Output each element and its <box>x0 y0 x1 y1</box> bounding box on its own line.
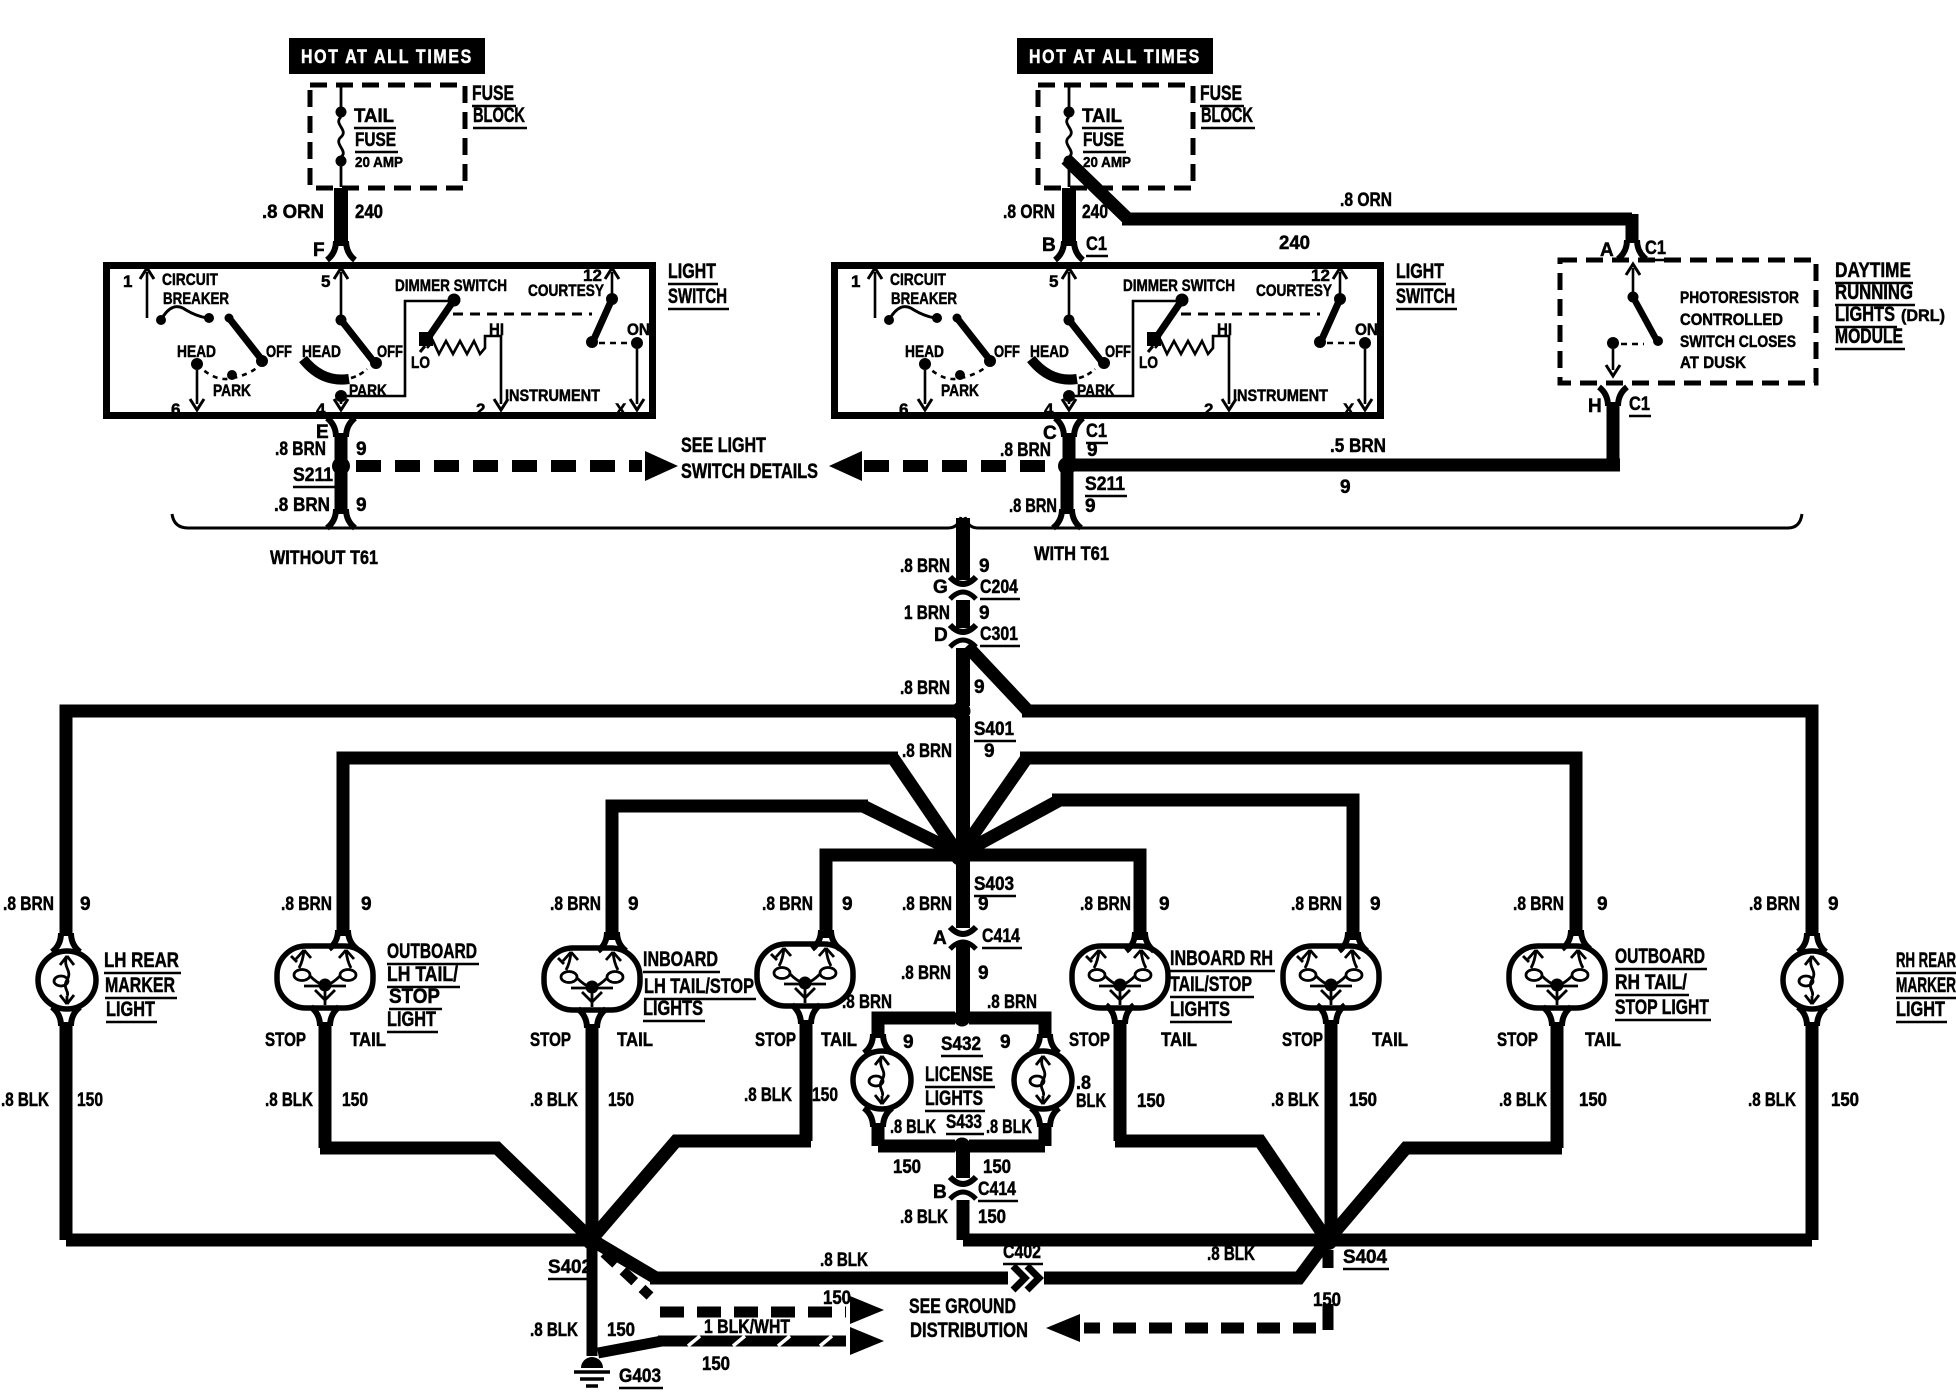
splice S211 (1) label <box>293 465 335 487</box>
outboard RH light label <box>1615 945 1711 1020</box>
brace joining branches <box>172 514 1802 528</box>
svg-text:STOP: STOP <box>265 1030 306 1051</box>
svg-text:FUSE: FUSE <box>472 82 514 105</box>
wire label 150 150 (below license) <box>893 1157 1011 1178</box>
svg-text:STOP: STOP <box>389 985 440 1008</box>
DRL module label <box>1835 259 1945 349</box>
inboard LH lights label <box>643 948 756 1021</box>
splice S402 <box>582 1230 602 1250</box>
splice S401 <box>952 702 971 721</box>
svg-text:.8 BRN: .8 BRN <box>550 894 601 915</box>
svg-text:9: 9 <box>1370 894 1381 915</box>
svg-text:LH REAR: LH REAR <box>104 949 179 972</box>
stop tail label (inboard RH 1) <box>1069 1030 1197 1051</box>
svg-text:LIGHTS: LIGHTS <box>643 997 703 1020</box>
svg-text:STOP: STOP <box>530 1030 571 1051</box>
svg-text:G403: G403 <box>619 1366 661 1387</box>
wire label .8 BLK 150 (outboard RH) <box>1499 1090 1607 1111</box>
connector flare inboard LH bulb1 bottom <box>578 1009 606 1028</box>
license light bulb 2 <box>1014 1051 1072 1109</box>
svg-text:9: 9 <box>1000 1032 1011 1053</box>
wire S401 right feed to RH rear marker <box>967 646 1812 936</box>
svg-text:DISTRIBUTION: DISTRIBUTION <box>910 1319 1028 1342</box>
svg-text:9: 9 <box>356 439 367 460</box>
connector C C1 label <box>1043 421 1108 444</box>
light switch 2 <box>835 266 1381 420</box>
svg-text:C414: C414 <box>982 926 1020 947</box>
DRL internal caption <box>1680 288 1799 372</box>
svg-text:.8 BRN: .8 BRN <box>1080 894 1131 915</box>
svg-text:TAIL: TAIL <box>1161 1030 1197 1051</box>
svg-text:9: 9 <box>903 1032 914 1053</box>
tail fuse 2 value label <box>1082 106 1131 171</box>
connector flare license bulb2 top <box>1031 1034 1059 1053</box>
wire C to S211-2 .8 BRN 9 <box>1063 433 1076 462</box>
splice S401 label <box>974 719 1016 741</box>
svg-text:150: 150 <box>1137 1091 1165 1112</box>
dashed wire S211-1 to see-light-switch-details <box>356 460 642 472</box>
svg-text:TAIL: TAIL <box>1372 1030 1408 1051</box>
svg-text:.8 BRN: .8 BRN <box>1513 894 1564 915</box>
svg-text:.8 BRN: .8 BRN <box>1009 496 1057 517</box>
wire label 1 BRN 9 <box>904 603 990 624</box>
svg-text:150: 150 <box>1579 1090 1607 1111</box>
hot-at-all-times banner 1 <box>289 38 485 74</box>
wire inboard RH bulb1 to S404 .8 BLK 150 <box>1115 1020 1323 1234</box>
wire label .8 BRN 9 (above S211-1) <box>275 439 367 460</box>
splice S211 (1) <box>332 457 350 475</box>
svg-text:.8 BLK: .8 BLK <box>1 1090 49 1111</box>
svg-text:.8 BLK: .8 BLK <box>890 1117 936 1138</box>
wire S401 left feed to LH rear marker <box>66 711 961 936</box>
wire label .8 BRN 9 (above S401) <box>900 677 985 699</box>
dashed wire S404 to ground distribution <box>1084 1250 1328 1330</box>
svg-text:OUTBOARD: OUTBOARD <box>1615 945 1705 968</box>
wire C402 to S404 .8 BLK <box>1044 1243 1325 1278</box>
connector H C1 flare <box>1599 387 1627 406</box>
svg-text:.8 BLK: .8 BLK <box>1207 1244 1255 1265</box>
wire end hook at bracket (with T61) <box>1053 509 1081 528</box>
svg-text:C1: C1 <box>1086 421 1107 442</box>
wire license bulb2 to S433 <box>969 1123 1045 1146</box>
splice S403 label <box>974 874 1016 896</box>
svg-text:H: H <box>1588 396 1602 417</box>
connector flare RH marker bottom <box>1798 1007 1826 1026</box>
svg-text:.8 BLK: .8 BLK <box>986 1117 1032 1138</box>
stop tail label (outboard RH) <box>1497 1030 1621 1051</box>
stop tail label (outboard LH) <box>265 1030 386 1051</box>
svg-text:PHOTORESISTOR: PHOTORESISTOR <box>1680 288 1799 307</box>
connector flare LH marker bottom <box>52 1007 80 1026</box>
connector flare RH marker top <box>1798 933 1826 952</box>
svg-text:150: 150 <box>702 1354 730 1375</box>
outboard LH light label <box>387 940 479 1032</box>
wire label .8 BRN 9 (inboard LH bulb 2) <box>762 894 853 915</box>
inboard RH tail/stop bulb 2 <box>1283 946 1379 1008</box>
wire fuse1 to switch F <box>334 188 348 246</box>
svg-text:.8 BRN: .8 BRN <box>274 495 330 516</box>
svg-text:WITH T61: WITH T61 <box>1034 544 1109 565</box>
wire label .8 BLK 150 (inboard RH 1 stacked) <box>1076 1073 1165 1112</box>
stop tail label (inboard LH 1) <box>530 1030 653 1051</box>
svg-text:TAIL: TAIL <box>821 1030 857 1051</box>
svg-text:.8 BRN: .8 BRN <box>1291 894 1342 915</box>
wire C301 to S401 .8 BRN 9 <box>956 648 970 706</box>
svg-text:MARKER: MARKER <box>1896 974 1956 997</box>
light switch 2 label <box>1396 260 1457 309</box>
svg-text:1 BLK/WHT: 1 BLK/WHT <box>704 1317 790 1338</box>
svg-text:LIGHT: LIGHT <box>1896 998 1945 1021</box>
wire S433 to C414 B <box>956 1150 970 1178</box>
svg-text:240: 240 <box>1279 233 1310 254</box>
svg-text:C402: C402 <box>1003 1242 1041 1263</box>
wire label .8 BLK 150 (inboard LH 2) <box>744 1085 838 1106</box>
svg-text:(DRL): (DRL) <box>1901 306 1945 325</box>
splice S404 <box>1318 1230 1338 1250</box>
svg-text:240: 240 <box>355 202 383 223</box>
wire inboard LH bulb2 to S402 .8 BLK 150 <box>597 1020 811 1233</box>
svg-text:LIGHT: LIGHT <box>1396 260 1444 283</box>
wire S403 to inboard RH bulb 2 <box>966 800 1353 940</box>
wire RH marker to S404 .8 BLK 150 <box>1806 1022 1819 1240</box>
wire S403 to C414 A .8 BRN 9 <box>956 860 970 928</box>
svg-text:9: 9 <box>984 741 995 762</box>
svg-text:RH TAIL/: RH TAIL/ <box>1615 971 1687 994</box>
svg-text:C204: C204 <box>980 577 1018 598</box>
svg-text:FUSE: FUSE <box>1200 82 1242 105</box>
connector C301 <box>950 625 976 647</box>
wire DRL H to S211 .5 BRN 9 <box>1073 402 1620 465</box>
svg-text:HOT AT ALL TIMES: HOT AT ALL TIMES <box>301 47 473 68</box>
stop tail label (inboard RH 2) <box>1282 1030 1408 1051</box>
ground G403 label <box>619 1366 663 1388</box>
svg-text:C414: C414 <box>978 1179 1016 1200</box>
wire label .8 BLK 150 (LH marker) <box>1 1090 103 1111</box>
dashed wire see-details to S211-2 <box>864 460 1052 472</box>
svg-text:SWITCH CLOSES: SWITCH CLOSES <box>1680 332 1796 351</box>
connector flare outboard RH top <box>1562 930 1590 949</box>
main tail feed wire below brace <box>956 518 970 580</box>
see ground distribution caption <box>909 1295 1028 1342</box>
dashed wire S402 to ground distribution 150 <box>604 1253 650 1296</box>
svg-text:9: 9 <box>356 495 367 516</box>
svg-text:WITHOUT T61: WITHOUT T61 <box>270 548 378 569</box>
svg-text:TAIL: TAIL <box>1082 106 1122 127</box>
splice S211 (2) label <box>1085 474 1127 496</box>
wire below S211-1 .8 BRN 9 <box>335 470 348 514</box>
svg-text:150: 150 <box>1831 1090 1859 1111</box>
svg-text:.8 BRN: .8 BRN <box>281 894 332 915</box>
wire label .8 BLK 150 (below C414 B) <box>900 1207 1006 1228</box>
wire license bulb1 to S433 <box>878 1123 955 1146</box>
wire outboard LH to S402 .8 BLK 150 <box>320 1022 589 1237</box>
wire label .8 BRN 9 (outboard RH) <box>1513 894 1608 915</box>
svg-text:.8 ORN: .8 ORN <box>262 202 324 223</box>
svg-text:9: 9 <box>1087 440 1098 461</box>
svg-text:BLOCK: BLOCK <box>1201 104 1253 127</box>
svg-text:9: 9 <box>978 894 989 915</box>
svg-text:S402: S402 <box>548 1257 592 1278</box>
wire fuse2 to switch B C1 <box>1062 188 1076 246</box>
inboard LH tail/stop bulb 2 <box>757 944 853 1006</box>
connector A C1 flare <box>1618 240 1646 259</box>
RH rear marker light label <box>1896 949 1956 1022</box>
tail fuse 1 value label <box>354 106 403 171</box>
svg-text:150: 150 <box>978 1207 1006 1228</box>
splice S433 label <box>946 1112 984 1134</box>
svg-text:INBOARD RH: INBOARD RH <box>1170 947 1273 970</box>
svg-text:BLK: BLK <box>1076 1091 1106 1112</box>
light switch 1 <box>107 266 653 420</box>
hot-at-all-times banner 2 <box>1017 38 1213 74</box>
svg-text:STOP LIGHT: STOP LIGHT <box>1615 996 1709 1019</box>
svg-text:1 BRN: 1 BRN <box>904 603 950 624</box>
connector E flare <box>327 418 355 437</box>
svg-text:.8 BRN: .8 BRN <box>1749 894 1800 915</box>
svg-text:9: 9 <box>628 894 639 915</box>
connector flare inboard LH bulb2 top <box>812 930 840 949</box>
svg-text:9: 9 <box>1159 894 1170 915</box>
wire C204 to C301 1 BRN 9 <box>956 600 970 628</box>
wire S403 to inboard LH bulb 1 <box>612 806 956 940</box>
svg-text:150: 150 <box>893 1157 921 1178</box>
striped wire 1 BLK/WHT 150 to ground distribution <box>598 1336 846 1353</box>
connector flare inboard LH bulb1 top <box>598 932 626 951</box>
wire label .8 BRN 9 (below S211-2) <box>1009 496 1096 517</box>
connector A C1 label <box>1600 238 1667 261</box>
connector C414 pin A <box>950 927 976 949</box>
svg-text:.8 BRN: .8 BRN <box>275 439 326 460</box>
svg-text:TAIL: TAIL <box>354 106 394 127</box>
svg-text:.8 BLK: .8 BLK <box>265 1090 313 1111</box>
svg-text:F: F <box>313 240 325 261</box>
svg-text:RUNNING: RUNNING <box>1835 281 1913 304</box>
LH rear marker light bulb <box>38 951 96 1009</box>
wire labels .8 BRN .8 BRN (license branches) <box>842 992 1037 1013</box>
svg-text:RH REAR: RH REAR <box>1896 949 1956 972</box>
svg-text:150: 150 <box>77 1090 103 1111</box>
svg-text:S401: S401 <box>974 719 1014 740</box>
RH rear marker light bulb <box>1783 951 1841 1009</box>
svg-text:150: 150 <box>608 1090 634 1111</box>
connector flare inboard RH bulb1 bottom <box>1106 1005 1134 1024</box>
wire label .8 BRN 9 (LH marker) <box>3 894 91 915</box>
splice S404 label <box>1343 1247 1389 1269</box>
svg-text:.8 BLK: .8 BLK <box>1748 1090 1796 1111</box>
tail fuse F2 <box>1064 87 1075 187</box>
see light switch details caption <box>681 434 818 483</box>
svg-text:HOT AT ALL TIMES: HOT AT ALL TIMES <box>1029 47 1201 68</box>
wire label .8 BRN 9 (inboard RH bulb 2) <box>1291 894 1381 915</box>
wire label .8 BRN 9 (inboard RH bulb 1) <box>1080 894 1170 915</box>
wire label .8 BLK 150 (RH marker) <box>1748 1090 1859 1111</box>
svg-text:9: 9 <box>978 963 989 984</box>
svg-text:TAIL: TAIL <box>617 1030 653 1051</box>
wire C414 B to S404 .8 BLK 150 <box>963 1200 1812 1240</box>
stop tail label (inboard LH 2) <box>755 1030 857 1051</box>
fuse block 1 dashed box <box>310 85 465 188</box>
outboard RH tail/stop light bulb <box>1509 946 1605 1008</box>
svg-text:150: 150 <box>607 1320 635 1341</box>
tail fuse F1 <box>336 87 347 187</box>
connector flare inboard RH bulb2 top <box>1339 932 1367 951</box>
wire label .8 BRN 9 (below S211-1) <box>274 495 367 516</box>
wire label .8 BRN 9 (above S211-2) <box>1000 440 1098 461</box>
connector flare outboard RH bottom <box>1543 1007 1571 1026</box>
connector B C1 flare <box>1055 241 1083 260</box>
DRL module dashed box <box>1560 260 1816 383</box>
svg-text:CONTROLLED: CONTROLLED <box>1680 310 1783 329</box>
svg-text:.8 ORN: .8 ORN <box>1340 190 1392 211</box>
wire S432 to license bulb 1 <box>878 1018 955 1038</box>
wire fuse2 to DRL module .8 ORN 240 <box>1066 159 1632 243</box>
svg-text:S404: S404 <box>1343 1247 1387 1268</box>
wire below S211-2 .8 BRN 9 <box>1061 470 1074 514</box>
svg-text:FUSE: FUSE <box>1083 130 1124 151</box>
connector H C1 label <box>1588 394 1651 417</box>
svg-text:.8 BRN: .8 BRN <box>762 894 813 915</box>
svg-text:A: A <box>933 928 947 949</box>
inboard RH lights label <box>1170 947 1275 1022</box>
svg-text:150: 150 <box>1349 1090 1377 1111</box>
svg-text:LH TAIL/STOP: LH TAIL/STOP <box>644 975 754 998</box>
svg-text:S403: S403 <box>974 874 1014 895</box>
svg-text:G: G <box>933 577 948 598</box>
wire label .8 BRN 9 (above C204) <box>900 556 990 577</box>
svg-text:.8 BRN: .8 BRN <box>900 556 950 577</box>
svg-text:B: B <box>1042 235 1056 256</box>
svg-text:.8 BRN: .8 BRN <box>901 963 951 984</box>
svg-text:TAIL: TAIL <box>350 1030 386 1051</box>
svg-text:OUTBOARD: OUTBOARD <box>387 940 477 963</box>
wire S403 to inboard RH bulb 1 <box>970 855 1140 940</box>
fuse block 1 label <box>472 82 527 128</box>
connector C402 chevrons <box>1013 1266 1039 1290</box>
svg-text:LICENSE: LICENSE <box>925 1063 993 1086</box>
svg-text:LIGHTS: LIGHTS <box>1835 303 1895 326</box>
svg-text:LIGHT: LIGHT <box>668 260 716 283</box>
svg-text:9: 9 <box>979 556 990 577</box>
svg-text:9: 9 <box>80 894 91 915</box>
arrowhead right (see light switch details) <box>645 451 678 481</box>
wire S403 to outboard LH tail light <box>343 758 955 936</box>
connector C414 pin B <box>950 1177 976 1199</box>
wire label .5 BRN 9 <box>1330 436 1386 498</box>
connector flare license bulb1 bottom <box>864 1108 892 1127</box>
arrowhead right (ground distribution lower) <box>850 1327 884 1355</box>
splice S432 label <box>941 1034 983 1056</box>
splice S433 <box>954 1138 971 1155</box>
svg-text:BLOCK: BLOCK <box>473 104 525 127</box>
svg-text:.8 BLK: .8 BLK <box>820 1250 868 1271</box>
license light bulb 1 <box>853 1051 911 1109</box>
svg-text:MARKER: MARKER <box>105 974 175 997</box>
svg-text:9: 9 <box>842 894 853 915</box>
svg-text:.8 BLK: .8 BLK <box>744 1085 792 1106</box>
svg-text:D: D <box>934 625 948 646</box>
svg-text:LIGHTS: LIGHTS <box>925 1087 983 1110</box>
svg-text:.8 BLK: .8 BLK <box>530 1320 578 1341</box>
wire label .8 BRN 9 (outboard LH) <box>281 894 372 915</box>
connector C414 B label <box>933 1179 1018 1203</box>
svg-text:SWITCH DETAILS: SWITCH DETAILS <box>681 460 818 483</box>
svg-text:SEE LIGHT: SEE LIGHT <box>681 434 766 457</box>
wire label .8 ORN 240 (2) <box>1003 202 1108 256</box>
LH rear marker light label <box>104 949 181 1022</box>
svg-text:.8 BRN: .8 BRN <box>902 741 952 762</box>
connector flare outboard LH bottom <box>311 1007 339 1026</box>
svg-text:.8 BRN: .8 BRN <box>987 992 1037 1013</box>
svg-text:C1: C1 <box>1629 394 1650 415</box>
wire E to S211 .8 BRN 9 <box>335 433 348 462</box>
svg-text:.8 ORN: .8 ORN <box>1003 202 1055 223</box>
wire S432 to license bulb 2 <box>969 1018 1045 1038</box>
wire label .8 BRN 9 (above S403) <box>902 741 995 762</box>
wire label .8 BLK 150 (outboard LH) <box>265 1090 368 1111</box>
fuse block 2 label <box>1200 82 1255 128</box>
svg-text:150: 150 <box>342 1090 368 1111</box>
fuse block 2 dashed box <box>1038 85 1193 188</box>
svg-text:STOP: STOP <box>1069 1030 1110 1051</box>
wire label .8 BLK 150 (inboard RH 2) <box>1271 1090 1377 1111</box>
svg-text:INBOARD: INBOARD <box>643 948 718 971</box>
svg-text:.5 BRN: .5 BRN <box>1330 436 1386 457</box>
svg-text:9: 9 <box>1085 496 1096 517</box>
svg-text:STOP: STOP <box>755 1030 796 1051</box>
svg-text:C1: C1 <box>1086 234 1107 255</box>
svg-text:LH TAIL/: LH TAIL/ <box>387 963 458 986</box>
connector C204 label G <box>933 577 1020 599</box>
wire label .8 BLK 150 (inboard LH 1) <box>530 1090 634 1111</box>
arrowhead left (see light switch details) <box>829 451 862 481</box>
svg-text:FUSE: FUSE <box>355 130 396 151</box>
connector C204 <box>950 577 976 599</box>
wire label .8 BRN 9 (RH marker) <box>1749 894 1839 915</box>
connector flare inboard RH bulb2 bottom <box>1317 1005 1345 1024</box>
connector C301 label D <box>934 624 1020 646</box>
wire label .8 BLK 150 (ground leg) <box>530 1320 635 1341</box>
wire inboard RH bulb2 to S404 .8 BLK 150 <box>1325 1020 1338 1232</box>
connector flare inboard LH bulb2 bottom <box>792 1005 820 1024</box>
svg-text:S211: S211 <box>1085 474 1125 495</box>
svg-text:150: 150 <box>812 1085 838 1106</box>
connector C402 label <box>1003 1242 1043 1264</box>
svg-text:SWITCH: SWITCH <box>668 285 727 308</box>
svg-text:9: 9 <box>1828 894 1839 915</box>
light switch 1 label <box>668 260 729 309</box>
wire S402 to ground .8 BLK 150 <box>587 1248 598 1356</box>
wire S402 to C402 to S404 .8 BLK <box>597 1243 1008 1278</box>
license lights label <box>925 1063 995 1111</box>
svg-text:DAYTIME: DAYTIME <box>1835 259 1911 282</box>
svg-text:C1: C1 <box>1645 238 1666 259</box>
svg-text:9: 9 <box>1597 894 1608 915</box>
svg-text:.8 BRN: .8 BRN <box>1000 440 1051 461</box>
wire C414 A to S432 .8 BRN 9 <box>956 944 970 1014</box>
svg-text:MODULE: MODULE <box>1835 325 1903 348</box>
outboard LH tail/stop light bulb <box>277 946 373 1008</box>
svg-text:9: 9 <box>979 603 990 624</box>
connector flare inboard RH bulb1 top <box>1126 932 1154 951</box>
svg-text:.8 BRN: .8 BRN <box>900 678 950 699</box>
splice S402 label <box>548 1257 594 1279</box>
ground G403 <box>574 1357 610 1386</box>
wire S403 to inboard LH bulb 2 <box>826 855 952 938</box>
connector flare license bulb2 bottom <box>1031 1108 1059 1127</box>
arrowhead right (ground distribution upper) <box>850 1296 884 1324</box>
svg-text:.8 BRN: .8 BRN <box>902 894 952 915</box>
svg-text:.8 BRN: .8 BRN <box>3 894 54 915</box>
